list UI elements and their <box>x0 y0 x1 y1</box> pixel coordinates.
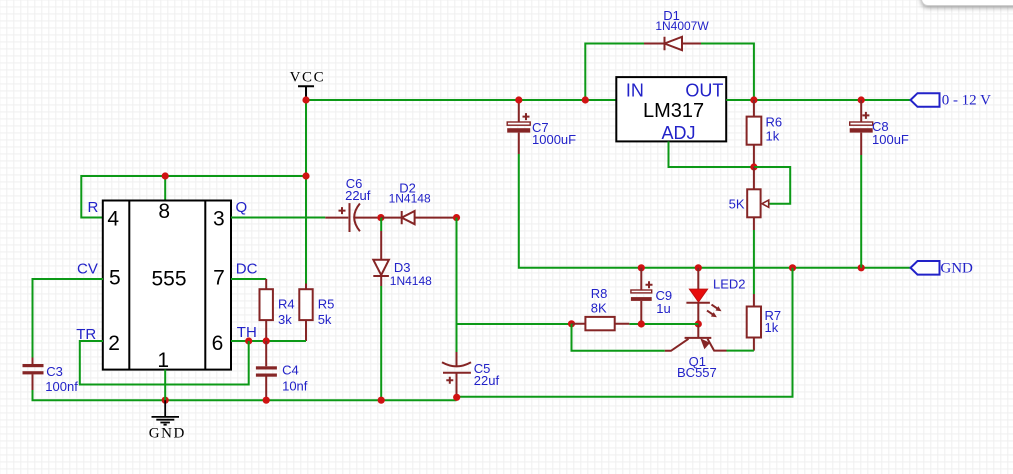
junction TH at TR return <box>245 337 252 344</box>
svg-text:IN: IN <box>626 80 644 100</box>
wire CV row <box>33 279 104 358</box>
svg-text:R4: R4 <box>278 297 295 312</box>
wire reset R row <box>81 176 306 218</box>
capacitor C4 <box>256 341 277 400</box>
svg-text:OUT: OUT <box>685 80 723 100</box>
svg-text:8: 8 <box>158 200 170 223</box>
svg-text:1N4148: 1N4148 <box>389 192 431 206</box>
svg-text:2: 2 <box>108 332 120 355</box>
junction LED cathode <box>695 320 702 327</box>
transistor Q1 <box>665 324 727 351</box>
junction C9 bottom <box>638 320 645 327</box>
svg-text:LM317: LM317 <box>643 100 704 122</box>
wire R8 right to LED cathode <box>629 323 698 325</box>
wire TH row <box>231 340 306 342</box>
svg-text:4: 4 <box>107 208 119 231</box>
svg-text:C3: C3 <box>46 364 63 379</box>
svg-text:GND: GND <box>940 260 973 276</box>
svg-text:555: 555 <box>151 267 186 290</box>
svg-text:1k: 1k <box>765 320 779 335</box>
svg-text:5K: 5K <box>729 196 745 211</box>
resistor R6 <box>747 100 762 167</box>
op-amp U2 LM317 body <box>616 77 726 141</box>
svg-text:3: 3 <box>213 208 225 231</box>
svg-text:1000uF: 1000uF <box>532 132 576 147</box>
capacitor C5 <box>442 352 471 397</box>
wire bottom rail left <box>33 390 457 400</box>
junction ADJ node <box>750 163 757 170</box>
junction TH at R4 C4 <box>263 337 270 344</box>
wire Q1 collector return <box>572 324 665 351</box>
junction C6 D2 D3 node <box>377 214 384 221</box>
diode D3 <box>373 231 389 286</box>
svg-text:CV: CV <box>77 261 98 278</box>
wire Q output row <box>231 217 325 219</box>
svg-text:BC557: BC557 <box>677 365 717 380</box>
junction bottom rail C5 <box>453 394 460 401</box>
svg-text:3k: 3k <box>278 312 292 327</box>
wire LM317 OUT rail <box>726 99 910 101</box>
svg-text:LED2: LED2 <box>713 276 746 291</box>
wire C5 column <box>456 218 458 352</box>
junction pin8 branch <box>162 172 169 179</box>
svg-text:ADJ: ADJ <box>661 123 695 143</box>
svg-text:10nf: 10nf <box>282 379 308 394</box>
diode D2 <box>381 211 456 224</box>
capacitor C6 <box>325 203 380 232</box>
junction GND rail at C8 <box>858 264 865 271</box>
junction VCC top <box>302 96 309 103</box>
junction C7 top <box>515 96 522 103</box>
resistor R8 <box>572 317 630 330</box>
wire VCC vertical to R5 <box>305 100 307 284</box>
wire VCC top rail to LM317 IN <box>306 99 616 101</box>
svg-text:1k: 1k <box>766 128 780 143</box>
svg-text:100nf: 100nf <box>45 379 78 394</box>
svg-text:22uf: 22uf <box>345 188 371 203</box>
svg-text:GND: GND <box>149 426 186 442</box>
junction bottom rail C4 <box>263 397 270 404</box>
svg-text:R5: R5 <box>318 297 335 312</box>
svg-text:0 - 12 V: 0 - 12 V <box>942 93 991 109</box>
svg-text:5k: 5k <box>318 312 332 327</box>
junction D2 C5 node <box>453 214 460 221</box>
svg-text:22uf: 22uf <box>474 373 500 388</box>
svg-text:6: 6 <box>212 332 224 355</box>
junction R8 left <box>568 320 575 327</box>
diode D1 <box>644 37 701 50</box>
svg-text:R6: R6 <box>766 114 783 129</box>
ground symbol GND <box>152 400 180 425</box>
svg-text:5: 5 <box>109 266 121 289</box>
junction R row at VCC column <box>302 172 309 179</box>
svg-text:VCC: VCC <box>290 69 326 85</box>
svg-text:Q: Q <box>236 199 248 216</box>
resistor R7 <box>747 294 761 351</box>
wire C7 to ground rail <box>519 154 911 268</box>
svg-text:R8: R8 <box>591 286 608 301</box>
wire C8 to ground rail <box>860 155 862 268</box>
wire D1 loop right <box>701 44 754 101</box>
net flag 0 - 12 V <box>911 93 940 107</box>
resistor R4 <box>260 279 273 341</box>
wire DC row <box>231 278 266 280</box>
wire Q1 emitter to R7 <box>727 350 754 352</box>
capacitor C8 <box>850 100 873 155</box>
capacitor C7 <box>507 100 530 154</box>
wire D1 loop left <box>585 44 644 101</box>
capacitor C3 <box>23 358 44 391</box>
wire potentiometer wiper loop <box>754 167 790 204</box>
svg-text:1N4148: 1N4148 <box>390 274 432 288</box>
svg-text:1: 1 <box>157 349 169 372</box>
wire C6 node to D3 <box>380 218 382 231</box>
wire pin8 stub <box>164 176 166 201</box>
svg-text:C4: C4 <box>282 363 299 378</box>
junction bottom rail D3 <box>378 397 385 404</box>
potentiometer RP1 5K <box>747 167 769 230</box>
floating toolbar panel top-right <box>921 0 1013 6</box>
capacitor C9 <box>631 268 653 324</box>
power symbol VCC <box>298 86 314 100</box>
wire pot bottom to R7 <box>753 230 755 294</box>
wire R8 row left <box>457 323 572 325</box>
wire TR row and return <box>80 341 249 385</box>
junction GND rail at C9 <box>638 264 645 271</box>
junction LM317 IN node <box>582 96 589 103</box>
junction GND rail at LED2 <box>695 264 702 271</box>
led LED2 <box>686 268 721 324</box>
svg-text:DC: DC <box>236 261 258 278</box>
wire LM317 ADJ <box>669 141 754 167</box>
ic U1 555 body <box>103 201 231 370</box>
wire bottom loop right <box>457 268 793 397</box>
junction OUT node <box>750 96 757 103</box>
wire 555 pin1 <box>164 370 166 401</box>
wire D3 to bottom rail <box>380 286 382 400</box>
svg-text:8K: 8K <box>591 301 607 316</box>
svg-text:7: 7 <box>213 266 225 289</box>
svg-text:R: R <box>88 199 99 216</box>
junction bottom rail pin1 <box>162 397 169 404</box>
svg-text:100uF: 100uF <box>872 132 909 147</box>
svg-text:1N4007W: 1N4007W <box>655 19 709 33</box>
net flag GND right <box>911 261 940 275</box>
svg-text:1u: 1u <box>656 301 670 316</box>
svg-text:D3: D3 <box>394 260 411 275</box>
junction C8 top <box>858 96 865 103</box>
resistor R5 <box>299 284 312 342</box>
junction GND rail at loop <box>789 264 796 271</box>
